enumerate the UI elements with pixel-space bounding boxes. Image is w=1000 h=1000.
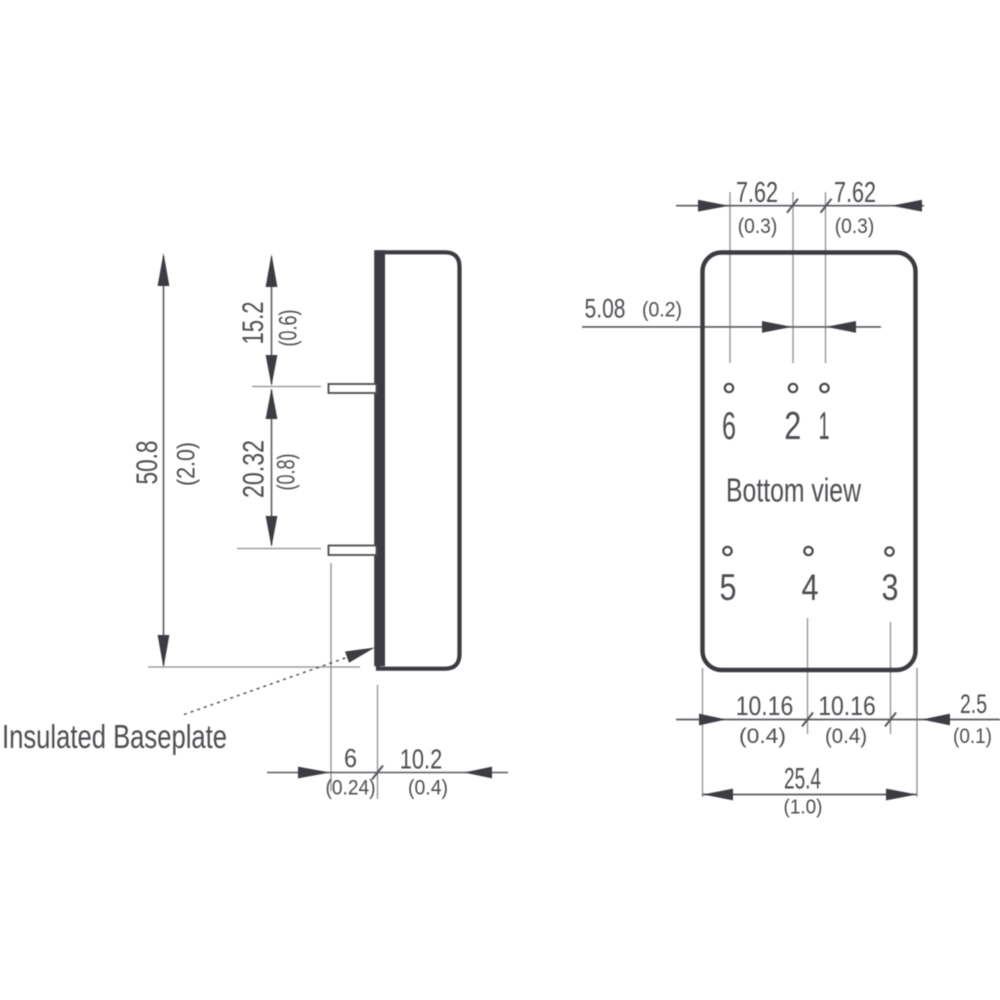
arrow pointing right at x=729 [698,200,729,212]
pin 5 pad [723,547,731,555]
leader arrowhead [345,648,375,663]
svg-text:15.2: 15.2 [237,302,270,345]
arrow pointing left at x=891.5 [892,200,923,212]
svg-text:50.8: 50.8 [131,441,164,485]
wire: dim line 20.32 [271,390,273,545]
arrow pointing right at x=916.5 [886,789,917,801]
wire: ext line pin 6 column [729,192,731,363]
pin 2 (side view) [329,546,377,556]
arrow 50.8 top [158,253,170,286]
svg-text:7.62: 7.62 [834,177,876,209]
arrow pointing left at x=922 [922,714,950,726]
insulated baseplate bar [374,250,385,666]
arrow pointing right at x=330 [298,767,330,779]
svg-text:Insulated Baseplate: Insulated Baseplate [2,718,227,755]
wire: ext line below pin 3 [890,622,892,734]
tick slash at x=890.5 [885,713,896,727]
svg-text:(1.0): (1.0) [784,797,823,819]
wire: extension line bottom of case [148,666,360,668]
arrow pointing left at x=464 [464,767,492,779]
tick slash at x=377.5 [372,766,383,780]
pin 4 pad [804,547,812,555]
svg-text:(0.24): (0.24) [326,777,376,800]
arrow 15.2 bottom [266,355,278,386]
arrow 20.32 top [266,388,278,419]
svg-text:25.4: 25.4 [784,763,821,796]
svg-text:20.32: 20.32 [238,440,271,498]
wire: 25.4 dim line [703,794,918,796]
svg-text:Bottom view: Bottom view [726,472,861,509]
wire: bottom dim line 10.16 / 10.16 / 2.5 [676,719,1000,721]
wire: 5.08 dim line [582,326,881,328]
wire: top dim line 7.62 / 7.62 [676,205,924,207]
arrow 15.2 top [266,254,278,287]
pin 3 pad [885,547,893,555]
svg-text:(0.6): (0.6) [275,310,303,347]
svg-text:(0.4): (0.4) [825,725,867,748]
svg-text:2: 2 [784,405,801,448]
svg-text:5.08: 5.08 [585,294,626,324]
wire: dim line 15.2 [271,257,273,384]
arrow 20.32 bottom [266,516,278,547]
pin 1 pad [820,384,828,392]
wire: dim line 50.8 [163,256,165,665]
component body: bottom view case [703,253,916,671]
wire: ext line pin 1 column [825,192,827,363]
tick slash at x=807.5 [802,713,813,727]
svg-text:10.16: 10.16 [818,691,876,721]
svg-text:6: 6 [722,405,736,448]
wire: ext line below right edge [916,668,918,797]
svg-text:3: 3 [882,567,899,608]
pin 1 (side view) [329,384,377,393]
pin 6 pad [725,384,733,392]
tick slash at x=826 [821,199,832,213]
arrow pointing left at x=826 [826,321,856,333]
svg-text:(0.3): (0.3) [835,215,875,238]
wire: bottom dim line 6 / 10.2 [267,772,508,774]
wire: ext line pin 2 column [792,192,794,363]
svg-text:(2.0): (2.0) [173,442,201,486]
component body: side view case [378,252,460,668]
svg-text:7.62: 7.62 [736,177,778,209]
svg-text:2.5: 2.5 [960,689,987,719]
pin 2 pad [789,384,797,392]
arrow pointing right at x=792 [762,321,792,333]
svg-text:(0.4): (0.4) [408,777,448,800]
tick slash at x=792.5 [787,199,798,213]
svg-text:1: 1 [819,405,830,448]
svg-text:10.2: 10.2 [400,744,443,775]
svg-text:(0.4): (0.4) [739,725,786,748]
wire: ext line below left edge [702,668,704,797]
wire: ext line below pin 4 [807,618,809,734]
wire: extension line at pin 2 [237,548,321,550]
wire: extension line at pin 1 [252,386,321,388]
wire: vertical extension from pin tips [330,563,332,791]
wire: vertical extension from baseplate [377,685,379,799]
svg-text:(0.8): (0.8) [273,454,301,491]
svg-text:(0.3): (0.3) [738,215,778,238]
arrow pointing right at x=726 [699,714,726,726]
svg-text:(0.2): (0.2) [642,299,682,322]
svg-text:6: 6 [344,743,357,773]
svg-text:4: 4 [802,567,819,608]
svg-text:5: 5 [720,567,737,608]
svg-text:10.16: 10.16 [736,691,794,721]
svg-text:(0.1): (0.1) [953,725,992,748]
leader: dashed line to baseplate [184,650,368,715]
arrow pointing left at x=703 [703,789,733,801]
arrow 50.8 bottom [158,635,170,668]
